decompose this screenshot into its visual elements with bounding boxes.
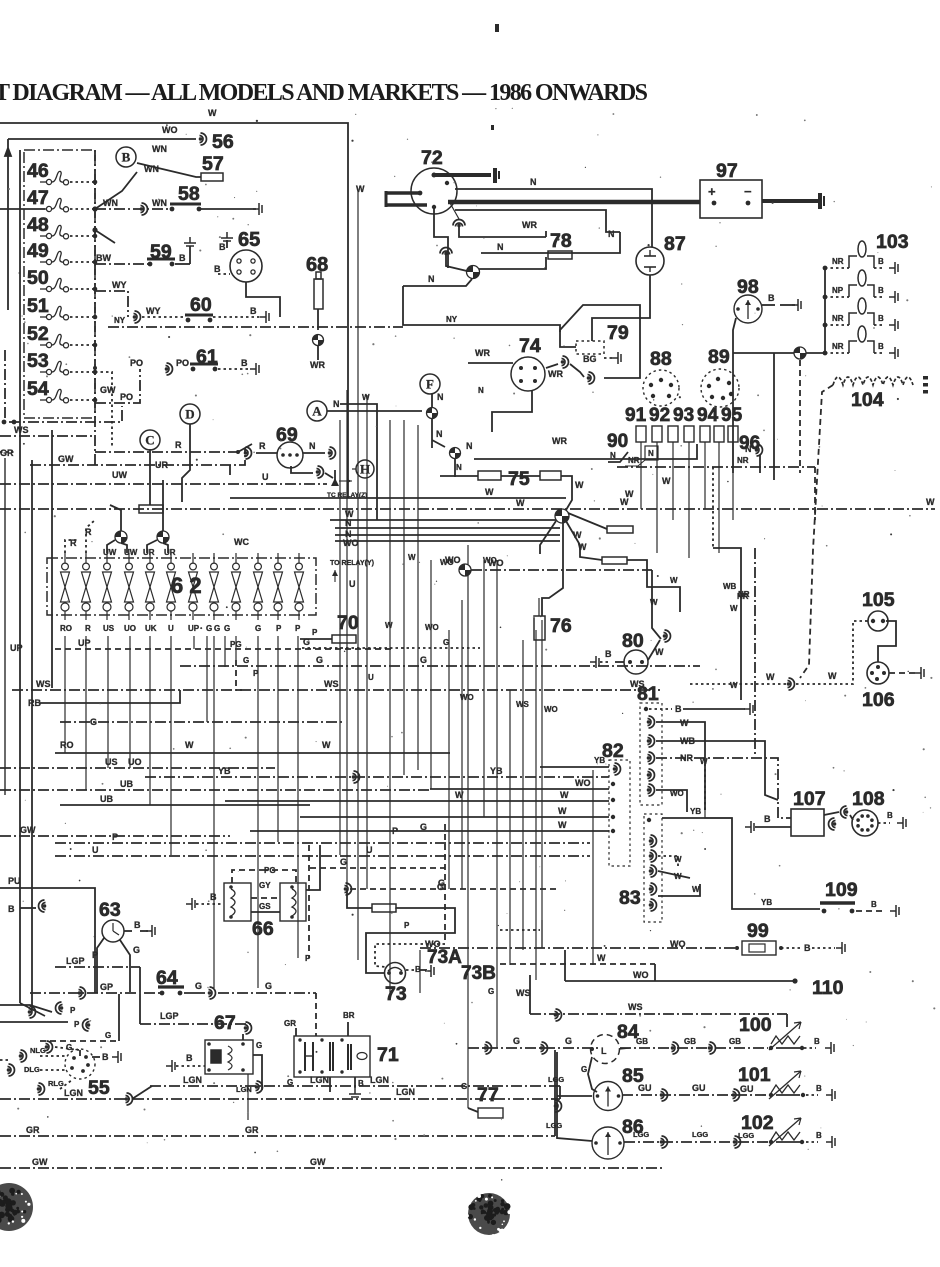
svg-text:G: G bbox=[420, 655, 427, 665]
wire GR vertical bbox=[4, 458, 6, 795]
svg-text:PO: PO bbox=[130, 358, 143, 368]
wire down x130 bbox=[129, 636, 131, 768]
wire GW down bbox=[95, 372, 112, 448]
svg-text:WR: WR bbox=[310, 360, 325, 370]
svg-text:GW: GW bbox=[100, 385, 116, 395]
connector 83 pin 1 bbox=[649, 835, 657, 847]
fuse 46 bbox=[40, 171, 69, 184]
svg-text:W: W bbox=[573, 530, 582, 540]
wire vertical x367 bbox=[366, 395, 368, 889]
svg-text:UR: UR bbox=[155, 460, 168, 470]
svg-text:49: 49 bbox=[27, 240, 49, 262]
wire WR bus bbox=[474, 444, 697, 459]
svg-text:W: W bbox=[485, 487, 494, 497]
svg-text:55: 55 bbox=[88, 1077, 110, 1099]
wire NY long bbox=[108, 326, 403, 328]
wire WS bbox=[0, 435, 95, 437]
wire vertical x358 bbox=[357, 192, 359, 960]
wire fuse 51 to bus bbox=[70, 316, 95, 318]
svg-text:UW: UW bbox=[124, 548, 138, 557]
W wire to 83 bottom bbox=[541, 920, 543, 948]
stray scan mark top bbox=[495, 24, 499, 32]
connector LGN 2 bbox=[125, 1093, 133, 1105]
wire N row bbox=[608, 452, 628, 462]
svg-text:66: 66 bbox=[252, 918, 274, 940]
svg-text:UP: UP bbox=[10, 643, 23, 653]
long W dash-dot bus bbox=[0, 508, 935, 510]
fuse element 62-11 bbox=[274, 563, 283, 611]
connector G 64 bbox=[208, 987, 216, 999]
wire LGG row bbox=[624, 1141, 768, 1143]
scan smudge left bbox=[0, 1183, 33, 1231]
svg-text:LGN: LGN bbox=[64, 1088, 83, 1098]
svg-text:YB: YB bbox=[218, 766, 231, 776]
wire down x108 bbox=[107, 636, 109, 768]
connector RLG bbox=[37, 1083, 45, 1095]
svg-text:P: P bbox=[312, 628, 318, 637]
wire WO bbox=[335, 540, 560, 542]
svg-text:WO: WO bbox=[575, 778, 591, 788]
connector 82 pin 2 bbox=[611, 782, 615, 786]
svg-text:W: W bbox=[700, 757, 708, 766]
wire down x236 bbox=[235, 636, 237, 660]
svg-text:72: 72 bbox=[421, 147, 443, 169]
capacitor 68 body bbox=[314, 279, 323, 309]
WO wire to 56 bbox=[8, 138, 196, 140]
connector GB 1 bbox=[671, 1042, 679, 1054]
svg-text:WC: WC bbox=[234, 537, 249, 547]
svg-text:G: G bbox=[420, 822, 427, 832]
svg-text:W: W bbox=[558, 820, 567, 830]
svg-text:LGP: LGP bbox=[66, 956, 85, 966]
svg-text:W: W bbox=[560, 790, 569, 800]
junction N mid bbox=[450, 448, 461, 459]
svg-text:P: P bbox=[74, 1020, 80, 1029]
svg-text:GU: GU bbox=[638, 1083, 652, 1093]
node bus-54 bbox=[93, 398, 98, 403]
top W bus bbox=[0, 123, 348, 498]
svg-text:90: 90 bbox=[607, 431, 628, 452]
wire W staircase right bbox=[627, 560, 680, 612]
NR dash bus right bbox=[799, 360, 801, 473]
wire G long bbox=[218, 992, 316, 994]
svg-text:WR: WR bbox=[548, 369, 563, 379]
svg-text:U: U bbox=[92, 845, 99, 855]
svg-text:R: R bbox=[85, 624, 91, 633]
svg-text:A: A bbox=[312, 404, 322, 419]
dotted wire to 105 bbox=[796, 621, 868, 684]
ground 59 bbox=[184, 237, 196, 246]
fuse 52 bbox=[40, 334, 69, 347]
svg-text:WO: WO bbox=[343, 538, 359, 548]
wire P long bbox=[55, 842, 590, 844]
svg-text:100: 100 bbox=[739, 1014, 772, 1036]
svg-text:65: 65 bbox=[238, 229, 260, 251]
connector pin 91 bbox=[652, 426, 662, 442]
R loop to fuses bbox=[65, 540, 78, 553]
wire NR bus bbox=[617, 466, 815, 468]
connector 82 pin 5 bbox=[611, 829, 615, 833]
svg-text:WN: WN bbox=[152, 198, 167, 208]
fuse element 62-8 bbox=[210, 563, 219, 611]
wire vertical x593 bbox=[592, 770, 594, 965]
wire RB bbox=[40, 690, 180, 703]
wire fuse 47 to bus bbox=[70, 208, 95, 210]
connector 107-108 bbox=[829, 818, 837, 830]
svg-text:G: G bbox=[206, 624, 212, 633]
svg-text:B: B bbox=[134, 920, 141, 930]
ground 103 row 1 bbox=[889, 262, 898, 274]
svg-text:WO: WO bbox=[425, 623, 439, 632]
node D bbox=[180, 404, 200, 424]
thick bar upper bbox=[434, 173, 491, 177]
relay 107 body bbox=[791, 809, 824, 836]
svg-text:N: N bbox=[648, 449, 654, 458]
svg-text:N: N bbox=[530, 177, 537, 187]
resistor near 73 bbox=[372, 904, 396, 912]
wire vertical x449 bbox=[448, 630, 450, 889]
wire loop around 79 bbox=[560, 305, 640, 378]
wire W right bbox=[713, 548, 741, 700]
connector 81 pin 5 bbox=[647, 769, 655, 781]
svg-text:92: 92 bbox=[649, 405, 670, 426]
svg-text:LGN: LGN bbox=[183, 1075, 202, 1085]
ground 63 bbox=[146, 925, 155, 937]
svg-text:UB: UB bbox=[120, 779, 133, 789]
connector right of 74 bbox=[561, 356, 569, 368]
node bus-49 bbox=[93, 260, 98, 265]
connector pin 90 bbox=[636, 426, 646, 442]
svg-text:GW: GW bbox=[32, 1157, 48, 1167]
svg-text:UR: UR bbox=[164, 548, 176, 557]
fuse 51 bbox=[40, 306, 69, 319]
connector PU bbox=[39, 900, 47, 912]
svg-text:W: W bbox=[680, 718, 689, 728]
svg-text:W: W bbox=[662, 476, 671, 486]
connector 82 outline bbox=[609, 760, 630, 866]
rail x20 bbox=[19, 150, 21, 1003]
svg-text:107: 107 bbox=[793, 788, 826, 810]
wire vertical x468 bbox=[467, 545, 469, 1108]
wire GW2 bbox=[0, 835, 230, 837]
wire WB from 81 bbox=[656, 741, 778, 800]
svg-text:WS: WS bbox=[628, 1002, 643, 1012]
connector 83 pin 4 bbox=[649, 883, 657, 895]
wire link to YB bbox=[705, 810, 732, 818]
wire LGP bbox=[55, 966, 140, 968]
wire C down bbox=[149, 449, 151, 505]
wire PO to 61 bbox=[95, 369, 140, 403]
svg-text:73B: 73B bbox=[461, 963, 496, 984]
svg-text:N: N bbox=[345, 518, 352, 528]
svg-text:B: B bbox=[102, 1052, 109, 1062]
svg-text:PG: PG bbox=[230, 640, 242, 649]
connector LGN mid bbox=[255, 1081, 263, 1093]
svg-text:N: N bbox=[333, 399, 340, 409]
svg-text:B: B bbox=[250, 306, 257, 316]
svg-text:WO: WO bbox=[670, 939, 686, 949]
wire W to 82a bbox=[225, 800, 609, 802]
fusebox 46-54 outline bbox=[24, 150, 95, 418]
svg-text:W: W bbox=[625, 489, 634, 499]
connector under 72 bbox=[453, 220, 465, 228]
svg-text:US: US bbox=[105, 757, 118, 767]
svg-text:W: W bbox=[766, 672, 775, 682]
svg-text:GR: GR bbox=[26, 1125, 40, 1135]
wire WO 110 bbox=[565, 980, 795, 982]
wire GW bbox=[30, 448, 245, 465]
svg-text:PU: PU bbox=[8, 876, 21, 886]
fuse 49 bbox=[40, 251, 69, 264]
wire vertical x340 bbox=[339, 420, 341, 855]
gauge 84 body bbox=[591, 1035, 620, 1064]
svg-text:WO: WO bbox=[544, 705, 558, 714]
wire GB row bbox=[620, 1047, 768, 1049]
wire R to 69 bbox=[95, 451, 238, 453]
ground above 65 bbox=[221, 232, 233, 241]
bus x95 junction dots bbox=[92, 206, 97, 211]
svg-text:50: 50 bbox=[27, 267, 49, 289]
svg-text:B: B bbox=[878, 257, 884, 266]
svg-text:T DIAGRAM — ALL MODELS AND MAR: T DIAGRAM — ALL MODELS AND MARKETS — 198… bbox=[0, 80, 648, 106]
rail x32 bbox=[31, 460, 33, 1010]
wire WN diagonal bbox=[95, 172, 137, 209]
connector 82 pin 3 bbox=[611, 798, 615, 802]
rail x52 bbox=[51, 430, 53, 688]
ground after 58 bbox=[253, 203, 262, 215]
fuse element 62-6 bbox=[167, 563, 176, 611]
wire N2 bbox=[335, 527, 560, 529]
dashed enclosure rows 52-54 bbox=[5, 350, 122, 422]
wire down x207 bbox=[206, 636, 208, 722]
svg-text:P: P bbox=[404, 921, 410, 930]
svg-text:GW: GW bbox=[310, 1157, 326, 1167]
svg-text:GR: GR bbox=[245, 1125, 259, 1135]
wire LGN 2 bbox=[0, 1098, 560, 1100]
node bus-50 bbox=[93, 287, 98, 292]
node bus-51 bbox=[93, 315, 98, 320]
wire vertical x390 bbox=[389, 420, 391, 1000]
svg-text:W: W bbox=[692, 885, 700, 894]
connector GP bbox=[78, 987, 86, 999]
svg-text:WR: WR bbox=[475, 348, 490, 358]
wire vertical x347 bbox=[346, 390, 348, 886]
svg-text:LGG: LGG bbox=[692, 1130, 708, 1139]
connector 82 pin 4 bbox=[611, 815, 615, 819]
svg-text:WS: WS bbox=[324, 679, 339, 689]
svg-text:N: N bbox=[437, 392, 444, 402]
ground 103 row 2 bbox=[889, 291, 898, 303]
resistor 77 body bbox=[478, 1108, 503, 1118]
svg-text:W: W bbox=[926, 497, 935, 507]
junction UR bbox=[157, 531, 169, 543]
svg-text:B: B bbox=[816, 1084, 822, 1093]
svg-text:UO: UO bbox=[124, 624, 136, 633]
svg-text:106: 106 bbox=[862, 689, 895, 711]
connector 83 pin 3 bbox=[649, 865, 657, 877]
wire WO to 80 connector bbox=[652, 570, 661, 639]
svg-text:N: N bbox=[436, 429, 443, 439]
fuse 47 bbox=[40, 198, 69, 211]
svg-text:47: 47 bbox=[27, 187, 49, 209]
svg-text:110: 110 bbox=[812, 977, 844, 999]
wire LGG vertical bbox=[557, 1052, 592, 1141]
wire NR from 81 bbox=[656, 758, 791, 818]
svg-text:UK: UK bbox=[145, 624, 157, 633]
connector 2 right of 74 bbox=[587, 372, 595, 384]
connector in WN line bbox=[140, 203, 148, 215]
junction WR under 72 bbox=[467, 266, 480, 279]
flasher 79 body bbox=[576, 341, 604, 354]
svg-text:B: B bbox=[804, 943, 811, 953]
ground 61 bbox=[250, 363, 259, 375]
wire vertical x404 bbox=[403, 420, 405, 775]
component 80 body bbox=[624, 650, 648, 674]
wire WO to 99 bbox=[420, 947, 737, 949]
node bus-53 bbox=[93, 370, 98, 375]
svg-text:WO: WO bbox=[445, 555, 461, 565]
wire NY bbox=[403, 286, 560, 332]
svg-text:78: 78 bbox=[550, 230, 572, 252]
svg-text:88: 88 bbox=[650, 348, 672, 370]
thick open bar left bbox=[386, 191, 420, 195]
svg-text:LGN: LGN bbox=[396, 1087, 415, 1097]
connector 106 W bbox=[787, 678, 795, 690]
svg-text:GR: GR bbox=[0, 448, 14, 458]
scan smudge center bbox=[465, 1193, 511, 1237]
svg-text:48: 48 bbox=[27, 214, 49, 236]
rheostat 101 bbox=[769, 1071, 801, 1099]
ground 101 bbox=[826, 1089, 835, 1101]
svg-text:83: 83 bbox=[619, 887, 641, 909]
thick N cable 72 to 97 bbox=[448, 200, 700, 205]
ground 106 bbox=[915, 667, 924, 679]
node bus-52 bbox=[93, 343, 98, 348]
connector WS bbox=[554, 1009, 562, 1021]
svg-text:G: G bbox=[488, 987, 494, 996]
node bus-46 bbox=[93, 180, 98, 185]
wire UB bbox=[0, 789, 430, 791]
svg-text:NR: NR bbox=[737, 592, 749, 601]
wire UK bbox=[60, 804, 310, 806]
svg-text:RB: RB bbox=[28, 698, 41, 708]
svg-text:W: W bbox=[185, 740, 194, 750]
svg-text:W: W bbox=[674, 855, 682, 864]
ground 102 bbox=[826, 1136, 835, 1148]
fuse element 62-12 bbox=[295, 563, 304, 611]
dots right of 104 bbox=[923, 376, 928, 380]
svg-text:B: B bbox=[179, 253, 186, 263]
wire N under 72 bbox=[403, 279, 472, 286]
bus x95 vertical bbox=[94, 150, 96, 465]
svg-text:LGG: LGG bbox=[546, 1121, 562, 1130]
svg-text:G: G bbox=[224, 624, 230, 633]
svg-text:46: 46 bbox=[27, 160, 49, 182]
wire YB bbox=[145, 776, 609, 778]
svg-text:B: B bbox=[871, 900, 877, 909]
wire W to 82c bbox=[250, 830, 609, 832]
connector 83 pin 2 bbox=[649, 850, 657, 862]
wire YB 83 bbox=[662, 818, 732, 825]
wire G feed bbox=[468, 1047, 598, 1049]
svg-text:80: 80 bbox=[622, 630, 644, 652]
svg-text:NR: NR bbox=[832, 314, 844, 323]
wire vertical x462 bbox=[461, 600, 463, 889]
wire UP bbox=[55, 648, 395, 650]
connector PO bbox=[165, 363, 173, 375]
wire WS bottom bbox=[530, 1013, 787, 1015]
battery 97 body bbox=[700, 180, 762, 218]
svg-text:B: B bbox=[214, 264, 221, 274]
junction below 68 bbox=[313, 335, 324, 346]
wire vertical x542 bbox=[541, 620, 543, 948]
svg-text:LGP: LGP bbox=[160, 1011, 179, 1021]
svg-text:G: G bbox=[214, 624, 220, 633]
wire P to 73 bbox=[366, 908, 455, 973]
connector GB 2 bbox=[708, 1042, 716, 1054]
wire 98 to junction bbox=[733, 352, 774, 354]
svg-text:G: G bbox=[265, 981, 272, 991]
ground 79 bbox=[612, 352, 621, 364]
svg-text:B: B bbox=[814, 1037, 820, 1046]
svg-text:W: W bbox=[455, 790, 464, 800]
connector YB bbox=[352, 771, 360, 783]
svg-text:G: G bbox=[581, 1065, 587, 1074]
svg-text:W: W bbox=[356, 184, 365, 194]
svg-text:WO: WO bbox=[162, 125, 178, 135]
svg-text:NY: NY bbox=[114, 316, 126, 325]
relay 67 body bbox=[205, 1040, 253, 1074]
svg-text:73: 73 bbox=[385, 983, 407, 1005]
gauge 86 body bbox=[592, 1127, 624, 1159]
svg-text:B: B bbox=[878, 314, 884, 323]
dotted W to 106 bbox=[690, 683, 786, 685]
connector 56 bbox=[199, 133, 207, 145]
svg-text:NP: NP bbox=[832, 286, 844, 295]
svg-text:B: B bbox=[878, 286, 884, 295]
svg-text:BW: BW bbox=[96, 253, 111, 263]
wire fuse 54 to bus bbox=[70, 399, 95, 401]
wire GW bbox=[0, 1167, 662, 1169]
connector GU 1 bbox=[660, 1089, 668, 1101]
svg-text:GR: GR bbox=[284, 1019, 296, 1028]
fuse 75b bbox=[540, 471, 561, 480]
connector 83 outline bbox=[644, 814, 662, 922]
svg-text:WN: WN bbox=[103, 198, 118, 208]
dotted G wire to 73 bbox=[375, 944, 445, 967]
svg-text:77: 77 bbox=[477, 1084, 499, 1106]
node bus-48 bbox=[93, 234, 98, 239]
ground 71 bbox=[349, 1088, 361, 1097]
wire GR bbox=[0, 1135, 555, 1137]
wire G to 55 bbox=[40, 1040, 119, 1042]
svg-text:6 2: 6 2 bbox=[171, 573, 202, 598]
svg-text:105: 105 bbox=[862, 589, 895, 611]
wire down x171 bbox=[170, 636, 172, 855]
svg-text:D: D bbox=[185, 407, 194, 422]
svg-text:G: G bbox=[243, 656, 249, 665]
ground 107 bbox=[745, 821, 754, 833]
gauge 85 body bbox=[594, 1082, 623, 1111]
N wire upper bbox=[455, 189, 652, 247]
connector P3 bbox=[83, 1019, 91, 1031]
svg-text:G: G bbox=[437, 882, 444, 892]
svg-text:RLG: RLG bbox=[48, 1079, 64, 1088]
fuse 103 row 1 bbox=[849, 241, 874, 268]
wire LGN 1 bbox=[150, 1085, 560, 1087]
wire row47 left ext bbox=[0, 208, 45, 210]
flasher 73 body bbox=[385, 963, 406, 984]
